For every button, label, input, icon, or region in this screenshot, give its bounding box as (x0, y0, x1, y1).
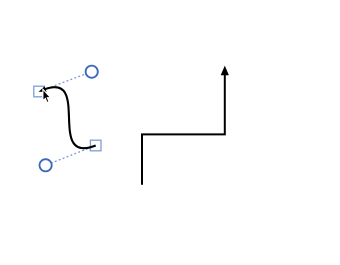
step arrow polyline (142, 75, 225, 185)
endpoint handle square B (90, 140, 101, 151)
arrowhead of curved edge (39, 86, 47, 92)
control point circle 1 (86, 66, 98, 78)
mouse cursor (43, 89, 51, 102)
dashed handle line from endpoint B to control point 2 (46, 146, 96, 166)
endpoint handle square A (34, 86, 45, 97)
curved edge (cubic bezier) (45, 87, 96, 148)
control point circle 2 (40, 159, 52, 171)
dashed handle line from endpoint A to control point 1 (39, 72, 92, 92)
step arrow arrowhead (221, 66, 229, 76)
